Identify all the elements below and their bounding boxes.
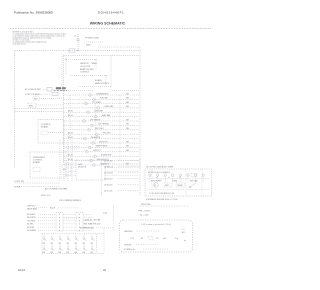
auger motor <box>64 155 140 157</box>
svg-text:w/sig: w/sig <box>103 213 107 215</box>
svg-text:ICE & WATER WIRING: ICE & WATER WIRING <box>59 199 81 202</box>
wire corner <box>139 47 141 51</box>
wire <box>63 223 76 225</box>
svg-text:1 C/V = w/wo (+,w) w/w sel + 2: 1 C/V = w/wo (+,w) w/w sel + 23+/+) <box>141 224 172 226</box>
thermistor RT1 <box>33 97 39 100</box>
drain trough heater <box>64 164 140 166</box>
wire <box>66 162 76 164</box>
wire <box>63 226 76 228</box>
wire <box>105 170 139 172</box>
svg-text:Publication No. 5995538085: Publication No. 5995538085 <box>14 11 53 15</box>
svg-text:OR ORNG: OR ORNG <box>27 220 36 222</box>
capacitor C1 box <box>47 87 52 91</box>
svg-text:FILL TUBE HTR 115V: FILL TUBE HTR 115V <box>84 223 101 225</box>
connector list left edge <box>101 159 103 196</box>
condenser fan motor <box>64 111 140 113</box>
svg-text:FF LIGHT: FF LIGHT <box>103 133 111 135</box>
wire <box>63 217 76 219</box>
svg-text:J2 WH-14: J2 WH-14 <box>104 167 114 169</box>
ice maker thermostat <box>176 183 185 187</box>
ice maker pin <box>172 174 174 176</box>
freezer light <box>64 129 140 131</box>
svg-text:MODULE: MODULE <box>78 167 87 169</box>
svg-text:IM MOTOR: IM MOTOR <box>99 141 108 143</box>
wire <box>36 207 48 209</box>
svg-text:LT SW: LT SW <box>15 187 21 189</box>
water valve <box>64 146 140 148</box>
control board box <box>38 120 64 144</box>
run capacitor <box>64 98 140 100</box>
svg-text:JT A/B/Jw thr: JT A/B/Jw thr <box>124 248 135 251</box>
wire <box>64 217 82 219</box>
svg-text:BK BLACK: BK BLACK <box>27 213 36 216</box>
svg-text:COLD CTRL: COLD CTRL <box>80 66 91 68</box>
svg-text:J3 OR-18: J3 OR-18 <box>104 173 113 175</box>
svg-text:1 sp: 1 sp <box>175 238 178 240</box>
wire <box>36 104 64 106</box>
wire <box>15 185 61 187</box>
wire <box>105 166 139 168</box>
svg-text:ICE MAKER SHOWN IN FILL CYCLE: ICE MAKER SHOWN IN FILL CYCLE <box>146 198 178 201</box>
wire <box>48 132 64 134</box>
svg-text:WIRING SCHEMATIC: WIRING SCHEMATIC <box>90 21 126 25</box>
dispenser control box <box>30 152 66 178</box>
wire <box>66 170 76 172</box>
ice maker heater <box>164 183 172 187</box>
svg-text:10/12: 10/12 <box>18 268 25 272</box>
svg-text:BOARD: BOARD <box>33 161 41 164</box>
wire <box>63 220 76 222</box>
svg-text:A7 2: A7 2 <box>182 231 186 234</box>
mullion heater <box>64 160 140 162</box>
ice maker pin <box>194 174 196 176</box>
svg-text:RT1: RT1 <box>34 98 38 100</box>
svg-text:LOW VOLTAGE: LOW VOLTAGE <box>25 93 40 96</box>
ice maker pin <box>179 174 181 176</box>
wire top rail N upper <box>98 46 140 48</box>
wire drop <box>63 140 65 182</box>
svg-text:SM E CO W: SM E CO W <box>41 195 51 197</box>
wire <box>40 93 50 95</box>
svg-text:pW: pW <box>163 238 166 240</box>
dispenser solenoid <box>64 151 140 153</box>
wire vertical x106 <box>105 76 107 88</box>
evaporator fan motor <box>64 116 140 118</box>
fuse F1 on rail <box>69 49 75 52</box>
svg-text:DEFROST: DEFROST <box>80 63 90 65</box>
svg-text:RD RED: RD RED <box>27 224 34 226</box>
svg-text:CONTROL: CONTROL <box>80 72 89 74</box>
svg-text:J6 GY-18: J6 GY-18 <box>104 191 113 193</box>
svg-text:GN GREEN: GN GREEN <box>27 230 37 232</box>
fresh food light <box>64 133 140 135</box>
node junction <box>77 50 78 51</box>
svg-text:= 1: = 1 <box>182 229 184 231</box>
main power board (dark) <box>56 87 61 89</box>
ice maker pin <box>149 174 151 176</box>
wire leader <box>58 207 80 209</box>
svg-text:P/N KIT REF: P/N KIT REF <box>141 204 151 206</box>
svg-text:A/C POWER SYSTEM: A/C POWER SYSTEM <box>45 187 67 190</box>
svg-text:J5 BU-16: J5 BU-16 <box>104 185 113 187</box>
svg-text:POWER CORD: POWER CORD <box>85 38 100 40</box>
svg-text:PTC START: PTC START <box>92 101 101 104</box>
wire <box>105 162 139 164</box>
dispenser module box <box>76 160 105 180</box>
wire cross drop 2 <box>95 99 97 150</box>
wire vertical x96 <box>95 60 97 71</box>
defrost thermostat <box>64 124 140 126</box>
svg-text:8a + u alba: 8a + u alba <box>140 215 148 217</box>
ice maker pin <box>202 174 204 176</box>
wire vertical to table <box>113 205 115 231</box>
junction dots <box>65 59 66 60</box>
switch box top edge <box>42 233 104 235</box>
svg-text:BOARD: BOARD <box>95 79 102 82</box>
wire left rail <box>14 51 16 169</box>
svg-text:BK-16: BK-16 <box>68 133 73 135</box>
ice maker switch <box>190 183 196 187</box>
svg-text:THERM: THERM <box>177 185 183 187</box>
wire bus <box>15 107 64 109</box>
wire ladder left rail <box>63 56 65 164</box>
wire <box>15 182 61 184</box>
svg-text:J1 BK-16: J1 BK-16 <box>104 161 113 163</box>
wire <box>66 166 76 168</box>
ice maker module box <box>191 174 197 177</box>
ice maker heater <box>64 138 140 140</box>
ice maker divider 3 <box>201 169 203 196</box>
svg-text:PWR + 1W 1R+: PWR + 1W 1R+ <box>138 211 151 213</box>
connector J1 <box>41 131 48 134</box>
wire <box>63 213 76 215</box>
svg-text:DOOR SW: DOOR SW <box>15 181 24 183</box>
header dashed rule <box>10 27 211 29</box>
wire y90 <box>60 90 94 92</box>
svg-text:JMG/VGD: JMG/VGD <box>124 231 133 233</box>
compressor run winding <box>64 94 140 96</box>
svg-text:TIMER: TIMER <box>91 63 98 65</box>
wire drop <box>59 140 61 182</box>
wire right rail N <box>139 51 141 169</box>
wire <box>83 217 92 219</box>
svg-text:DISP SOL: DISP SOL <box>93 150 101 152</box>
wire <box>105 174 139 176</box>
connector J2 <box>33 168 40 172</box>
wire <box>83 223 92 225</box>
svg-text:BK-16: BK-16 <box>68 115 73 117</box>
svg-text:EVAP FAN: EVAP FAN <box>102 114 111 117</box>
wire vertical x111 <box>110 56 112 89</box>
svg-text:J4 RD-18: J4 RD-18 <box>104 179 113 181</box>
wire top rail L1 <box>15 50 141 52</box>
wire <box>83 220 92 222</box>
ice maker pin <box>164 174 166 176</box>
svg-text:AC LINE FILTER: AC LINE FILTER <box>25 88 41 91</box>
svg-text:1 2 3 4 SHUT-OFF ARM: 1 2 3 4 SHUT-OFF ARM FILL SW <box>149 192 175 195</box>
connector strip P1 <box>56 213 63 232</box>
wire <box>83 226 92 228</box>
svg-text:BOARD: BOARD <box>41 126 49 129</box>
left box bottom edge <box>15 111 64 113</box>
svg-text:BU BLUE: BU BLUE <box>27 227 35 229</box>
wire y86 <box>78 86 112 88</box>
svg-text:MOLD HTR: MOLD HTR <box>151 181 160 183</box>
svg-text:BK-16: BK-16 <box>68 111 73 113</box>
wire <box>147 178 209 180</box>
switch box bottom edge <box>42 253 104 255</box>
svg-text:VALVE ASM: VALVE ASM <box>27 207 37 210</box>
ice maker motor M <box>154 183 158 187</box>
overload protector <box>64 107 140 109</box>
wire <box>43 88 47 90</box>
svg-text:I.M. 4 PIN CONN BODY VIEW: I.M. 4 PIN CONN BODY VIEW <box>146 166 173 168</box>
solenoid L1 <box>62 164 71 175</box>
relay K2 box <box>52 92 58 95</box>
wire <box>147 189 209 191</box>
wire drop <box>67 140 69 182</box>
switch box left edge <box>41 234 43 254</box>
svg-text:SOL: SOL <box>63 169 67 171</box>
ice maker cam switches <box>158 180 162 182</box>
svg-text:JW BK-18 + WH CAB: JW BK-18 + WH CAB <box>84 218 101 221</box>
door/dispenser switch row 1 <box>43 235 45 238</box>
wire <box>83 213 92 215</box>
svg-text:JPG/JKF: JPG/JKF <box>124 245 132 247</box>
svg-text:DEF THERMO: DEF THERMO <box>98 124 110 126</box>
wire <box>96 227 113 229</box>
svg-text:BU-18: BU-18 <box>50 208 55 210</box>
wire <box>83 229 92 231</box>
note leader line <box>140 205 188 207</box>
svg-text:OVERLOAD: OVERLOAD <box>104 105 114 108</box>
wire <box>66 174 76 176</box>
wire vertical x62 <box>61 54 63 92</box>
svg-text:ADAPTIVE DEF: ADAPTIVE DEF <box>80 68 95 71</box>
svg-text:DISP H2O: DISP H2O <box>27 205 36 207</box>
ice maker divider 1 <box>151 169 153 196</box>
ice maker pin <box>156 174 158 176</box>
wire <box>112 90 139 92</box>
door/dispenser switch row 2 <box>43 245 45 248</box>
svg-text:AUGER DC 115V: AUGER DC 115V <box>80 227 95 230</box>
svg-text:COMPRESSOR: COMPRESSOR <box>96 93 109 95</box>
wire cross drop 3 <box>119 95 121 160</box>
wire y59 <box>66 59 96 61</box>
wire y75 <box>70 75 106 77</box>
switch S1 box <box>28 103 36 107</box>
svg-text:ba: ba <box>184 240 186 242</box>
ice maker motor <box>64 142 140 144</box>
defrost heater <box>64 120 140 122</box>
wire <box>39 97 64 99</box>
ice maker divider 2 <box>185 169 187 196</box>
svg-text:AUGER MTR: AUGER MTR <box>101 154 112 157</box>
svg-text:RUN CAP: RUN CAP <box>100 97 108 100</box>
svg-text:MAIN CONTROL: MAIN CONTROL <box>95 82 110 85</box>
svg-text:22: 22 <box>103 268 107 272</box>
svg-text:BK-16: BK-16 <box>68 137 73 139</box>
wire vertical right of switch box <box>103 228 105 254</box>
start relay <box>64 103 140 105</box>
ice maker circuit box <box>145 169 212 196</box>
svg-text:WATER VALVE: WATER VALVE <box>96 145 108 148</box>
svg-text:GRN: GRN <box>86 45 91 47</box>
wire secondary rail <box>64 55 140 57</box>
wire cross drop 1 <box>69 95 71 140</box>
wire right rail lower <box>139 159 141 196</box>
svg-text:SW1: SW1 <box>29 105 33 107</box>
wire <box>66 148 80 150</box>
svg-text:IM HEATER: IM HEATER <box>91 136 101 139</box>
wire <box>63 229 76 231</box>
ice maker pin <box>187 174 189 176</box>
wire vertical x66 <box>65 56 67 76</box>
svg-text:tech data sheet.: tech data sheet. <box>13 42 27 45</box>
connector strip P2 <box>76 213 83 232</box>
wire <box>66 146 80 148</box>
svg-text:BK WH OR GN LT GREEN: BK WH OR GN LT GREEN V <box>148 172 171 174</box>
svg-text:WH WHITE: WH WHITE <box>27 217 37 219</box>
svg-text:FRZ LIGHT: FRZ LIGHT <box>95 128 104 130</box>
wire drop <box>71 140 73 182</box>
switch box right edge <box>96 234 98 254</box>
svg-text:DGHS2644KF1: DGHS2644KF1 <box>98 11 124 15</box>
legend table box <box>120 220 193 252</box>
